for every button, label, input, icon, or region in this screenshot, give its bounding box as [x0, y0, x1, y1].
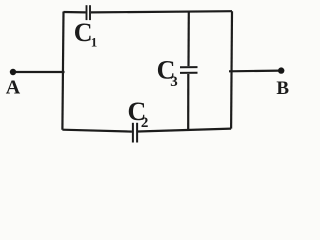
svg-text:2: 2 [141, 115, 149, 131]
svg-text:1: 1 [91, 34, 98, 49]
svg-text:A: A [6, 77, 21, 99]
svg-text:B: B [276, 78, 289, 99]
svg-text:3: 3 [170, 74, 178, 90]
